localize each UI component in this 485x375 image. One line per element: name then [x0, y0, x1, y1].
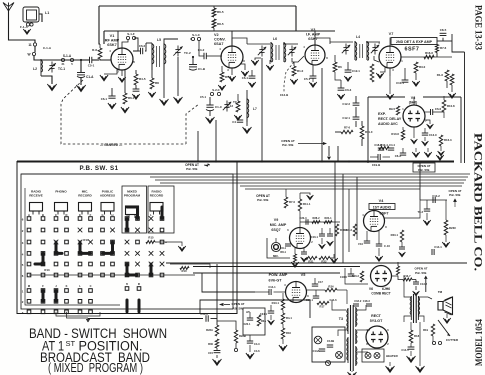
- svg-text:C18-2 C18-3: C18-2 C18-3: [354, 299, 370, 303]
- svg-text:I.F. AMP: I.F. AMP: [306, 33, 321, 37]
- trimmer TC-2: [177, 46, 179, 50]
- capacitor C5-1 series: [81, 59, 89, 61]
- capacitor C14-5: [408, 346, 415, 348]
- transformer T3 primary winding: [347, 308, 349, 334]
- vertical feeder V3 area: [321, 68, 323, 161]
- svg-text:C5-1: C5-1: [200, 95, 207, 99]
- wire bus line 6: [240, 185, 462, 187]
- resistor R16-2 v6: [360, 271, 363, 282]
- wire V7 plate: [389, 38, 391, 47]
- resistor R-7 tall: [370, 64, 374, 82]
- svg-text:C1-C: C1-C: [215, 105, 223, 109]
- switch S-2-C: [210, 92, 213, 95]
- svg-text:C12-1: C12-1: [342, 116, 350, 120]
- svg-text:R13-7: R13-7: [403, 274, 411, 278]
- svg-text:HEATER: HEATER: [386, 354, 399, 358]
- wire L4 top: [330, 41, 353, 43]
- svg-text:C18-2: C18-2: [374, 143, 382, 147]
- svg-text:6JH6: 6JH6: [382, 287, 390, 291]
- heater lamp 2: [374, 353, 380, 359]
- IF transformer L5 secondary: [163, 43, 165, 70]
- svg-text:R11-0: R11-0: [365, 130, 373, 134]
- resistor R16-6 v7 right: [424, 55, 434, 59]
- wire bus line 3: [150, 176, 468, 178]
- capacitor small below: [399, 246, 405, 248]
- svg-text:C20-1: C20-1: [244, 323, 251, 326]
- svg-text:C: C: [90, 284, 92, 288]
- capacitor C6-1 v3: [249, 75, 256, 77]
- tuning capacitor C1-A: [80, 60, 82, 72]
- ground R23C: [445, 235, 447, 242]
- capacitor C13-2 v6: [413, 281, 419, 283]
- switch contacts grid: [27, 217, 31, 221]
- lower contact rows: [27, 289, 31, 293]
- tube V7 2ND DET EXP AMP 6SF7: [379, 46, 401, 68]
- wire matrix right exit: [165, 242, 167, 243]
- svg-text:T6-3: T6-3: [417, 210, 423, 214]
- svg-text:P.B. SW. S1: P.B. SW. S1: [79, 165, 118, 172]
- svg-text:C-16: C-16: [384, 244, 390, 248]
- resistor R4-1 pow: [281, 313, 284, 324]
- dashed gang to C13-B: [284, 62, 294, 92]
- wire junction vertical: [216, 264, 218, 319]
- ground T3 bottom: [351, 371, 353, 372]
- wire bus line 4: [155, 179, 466, 181]
- tube V2 CONV 6SA7: [221, 46, 243, 68]
- svg-text:R6-1: R6-1: [128, 96, 135, 100]
- capacitor C6-2 plate: [138, 50, 140, 52]
- svg-text:R10-2: R10-2: [345, 228, 353, 232]
- svg-text:L7: L7: [253, 107, 257, 111]
- svg-text:C4-6: C4-6: [254, 349, 260, 353]
- resistor R23C: [444, 220, 448, 235]
- svg-text:R16: R16: [286, 331, 291, 335]
- wire loop to terminals: [30, 22, 32, 24]
- switch inner box: [21, 174, 233, 309]
- svg-text:C14-5: C14-5: [401, 348, 409, 352]
- capacitor C6-6: [425, 111, 430, 113]
- svg-text:P.B. SW.: P.B. SW.: [232, 307, 244, 311]
- svg-text:F10: F10: [358, 242, 363, 246]
- capacitor C14-3: [205, 315, 207, 321]
- resistor R16-1: [335, 224, 338, 236]
- resistor R10-6: [401, 130, 404, 140]
- resistor R1-0 below V3: [292, 66, 296, 76]
- ground V1 cathode: [104, 68, 117, 74]
- svg-text:R7-0: R7-0: [289, 200, 296, 204]
- capacitor C6-4: [135, 85, 137, 89]
- svg-text:C5-1: C5-1: [304, 77, 311, 81]
- ground L6: [255, 58, 261, 60]
- capacitor C14-2: [420, 199, 447, 201]
- resistor R7-0 mic: [284, 197, 287, 208]
- wire pow amp grid from bus: [202, 273, 255, 292]
- resistor R21: [306, 256, 317, 259]
- svg-text:T3: T3: [339, 317, 343, 321]
- svg-text:AT: AT: [246, 310, 250, 314]
- heater box: [362, 349, 384, 362]
- svg-text:P.B. SW.: P.B. SW.: [282, 143, 294, 147]
- capacitor C6-1 v1: [108, 95, 115, 97]
- svg-text:R13-1: R13-1: [272, 301, 280, 305]
- screen bus wire: [104, 30, 335, 32]
- switch outer box P.B. SW. S1: [17, 162, 237, 314]
- svg-text:— GANGED —: — GANGED —: [100, 143, 123, 147]
- svg-text:TM: TM: [438, 290, 443, 294]
- tube V6 6H6 comb rect: [371, 266, 392, 287]
- capacitor C8-1 mic: [285, 243, 291, 245]
- capacitor C16-1: [319, 233, 325, 235]
- svg-text:RECORD: RECORD: [78, 194, 92, 198]
- svg-text:C6-3: C6-3: [345, 88, 352, 92]
- wire v6 right arrow up: [425, 279, 427, 292]
- svg-text:R6: R6: [338, 65, 342, 69]
- svg-text:R19: R19: [423, 328, 428, 332]
- top B+ bus wire: [99, 5, 296, 7]
- svg-text:R9-5: R9-5: [389, 107, 396, 111]
- svg-text:P.B. SW.: P.B. SW.: [415, 271, 427, 275]
- svg-text:C14-6: C14-6: [329, 298, 337, 302]
- ground L2: [41, 76, 52, 84]
- lower thick bars: [42, 291, 45, 302]
- svg-text:V1: V1: [110, 34, 115, 38]
- capacitor C13-C: [422, 132, 428, 134]
- svg-text:C14-3: C14-3: [200, 312, 208, 316]
- wire mic plate: [299, 211, 301, 227]
- wire mic out top: [300, 221, 340, 223]
- lower heavy brackets: [126, 300, 129, 312]
- caps on bus C18-2 C4-4: [378, 147, 384, 149]
- resistor R-6 grid: [99, 44, 101, 48]
- IF transformer L4 trimmer left: [345, 44, 347, 48]
- wire to osc section: [151, 70, 153, 74]
- IF transformer L6 secondary coil: [283, 42, 285, 62]
- svg-text:C4-4: C4-4: [389, 143, 395, 147]
- vertical wires to V4: [348, 189, 350, 252]
- switch buttons: [30, 203, 43, 212]
- transformer T3 core: [350, 305, 352, 371]
- svg-text:C16-1: C16-1: [311, 235, 319, 239]
- wire V2 top to screen bus: [231, 31, 233, 46]
- cutter jack: [432, 336, 434, 342]
- svg-text:S-1-A: S-1-A: [63, 54, 72, 58]
- svg-text:R4-1: R4-1: [286, 316, 292, 320]
- vertical feeder L6 area: [261, 58, 263, 161]
- heater lamp 1: [365, 353, 371, 359]
- svg-text:AUDIO AVC: AUDIO AVC: [378, 122, 398, 126]
- tube V5 POW AMP 6V6-GT: [286, 282, 307, 303]
- svg-text:PAGE 13-33: PAGE 13-33: [473, 5, 483, 50]
- svg-text:EXP.: EXP.: [378, 112, 386, 116]
- capacitor C8-5: [437, 40, 452, 42]
- tuning capacitor C1-B: [192, 57, 194, 64]
- arrow to junction: [224, 304, 230, 306]
- svg-text:C6-2: C6-2: [139, 44, 146, 48]
- junction node: [80, 59, 82, 61]
- IF transformer L6 core: [275, 45, 277, 60]
- svg-text:1ST AUDIO: 1ST AUDIO: [373, 205, 392, 209]
- svg-text:OPEN AT: OPEN AT: [414, 267, 427, 271]
- capacitor C-16 below v4: [376, 243, 382, 245]
- svg-text:S-1-C: S-1-C: [192, 33, 201, 37]
- svg-text:R24-1: R24-1: [324, 216, 332, 220]
- svg-text:R23-1: R23-1: [391, 233, 399, 237]
- capacitor C12-3: [353, 102, 360, 104]
- svg-text:C6-A: C6-A: [395, 154, 402, 158]
- ground v8 mid: [413, 127, 415, 138]
- wire V3 top to screen bus: [314, 31, 316, 45]
- oscillator grid cap C1-C: [206, 104, 213, 106]
- wire L5 top link: [146, 42, 152, 44]
- wire v6 out: [392, 276, 403, 280]
- tube V1 RF AMP 6SK7: [111, 48, 133, 70]
- vertical bus drops right: [334, 161, 336, 263]
- svg-text:C6-1: C6-1: [242, 76, 249, 80]
- svg-text:C12-1: C12-1: [352, 69, 360, 73]
- wire v4 out right: [384, 200, 420, 218]
- svg-text:MODEL 1054: MODEL 1054: [475, 319, 485, 366]
- wire bottom exit step: [200, 300, 310, 313]
- capacitor C17 pow: [312, 283, 318, 285]
- ground loop antenna: [23, 29, 30, 34]
- mic cathode components: [294, 248, 296, 254]
- svg-text:F-1-A: F-1-A: [20, 25, 28, 29]
- T2 leads: [404, 276, 412, 297]
- ground in matrix: [166, 242, 182, 246]
- svg-text:R15: R15: [148, 236, 154, 240]
- resistor R11-1 mic: [298, 199, 301, 211]
- svg-text:V5: V5: [301, 273, 306, 277]
- svg-text:V7: V7: [389, 32, 394, 36]
- resistor R6-1 cathode: [123, 93, 127, 104]
- ground R22: [330, 254, 334, 258]
- svg-text:C-1-A: C-1-A: [43, 46, 52, 50]
- tube VR RECT 5Y3-GT: [366, 326, 388, 348]
- junction dots on bus: [215, 160, 217, 162]
- T2 primary: [410, 296, 412, 320]
- svg-text:R6-5: R6-5: [217, 10, 224, 14]
- svg-text:R3A: R3A: [261, 320, 266, 323]
- capacitor C18-1 pow: [313, 295, 319, 297]
- svg-text:PHONO: PHONO: [55, 190, 67, 194]
- svg-text:R17: R17: [320, 305, 325, 309]
- svg-text:C6-6: C6-6: [435, 107, 442, 111]
- svg-text:C5-1: C5-1: [88, 64, 95, 68]
- antenna: [3, 3, 14, 12]
- resistor R7-6 right: [435, 45, 438, 53]
- wire to L2: [34, 56, 41, 60]
- svg-text:L2: L2: [33, 67, 37, 71]
- pilot lamp box: [312, 327, 345, 362]
- resistor R24: [325, 288, 337, 291]
- capacitor C15: [214, 350, 221, 352]
- trimmer TC-4: [226, 101, 228, 105]
- microphone jack: [271, 242, 280, 251]
- mic circuit box: [267, 238, 290, 258]
- svg-text:P.B. SW.: P.B. SW.: [418, 168, 430, 172]
- grounds on bus line: [412, 152, 419, 157]
- svg-text:RECEIVE: RECEIVE: [29, 194, 43, 198]
- svg-text:R23C: R23C: [449, 226, 456, 230]
- svg-text:C1-B: C1-B: [198, 67, 206, 71]
- svg-text:R16-3: R16-3: [444, 138, 452, 142]
- capacitor F10 below v4: [364, 240, 370, 242]
- svg-text:5Y3-GT: 5Y3-GT: [370, 319, 383, 323]
- wire bottom exit: [56, 312, 100, 316]
- svg-text:R-6: R-6: [92, 48, 97, 52]
- svg-text:V6: V6: [369, 287, 373, 291]
- svg-text:6V6-GT: 6V6-GT: [269, 279, 283, 283]
- capacitor C12-1 v3: [345, 69, 352, 71]
- resistor R16-6 v6 right: [397, 266, 400, 275]
- arrow feeder down: [328, 146, 330, 156]
- switch S-1-F: [126, 36, 129, 39]
- svg-text:R1-0: R1-0: [297, 69, 304, 73]
- svg-text:CONV.: CONV.: [214, 38, 226, 42]
- svg-text:TC-1: TC-1: [58, 67, 65, 71]
- svg-text:R8: R8: [155, 81, 159, 85]
- capacitor C16-0: [327, 233, 333, 235]
- resistor R7-6 mid horizontal: [341, 130, 353, 133]
- tube V3 IF AMP 6SK7: [305, 45, 325, 65]
- svg-text:P.B. SW.: P.B. SW.: [186, 167, 198, 171]
- resistor R23-1: [400, 230, 403, 242]
- svg-text:M: M: [28, 284, 30, 288]
- box expander section: [367, 97, 369, 163]
- wire loop right side down: [39, 14, 42, 22]
- mixed program group box: [122, 186, 147, 233]
- svg-text:R13: R13: [44, 268, 50, 272]
- T2 secondary: [417, 296, 419, 320]
- caps on mic out: [305, 219, 307, 225]
- switch S-1-C: [191, 37, 194, 40]
- capacitor C12-1 mid: [353, 116, 360, 118]
- speaker: [438, 302, 443, 311]
- svg-text:R-13: R-13: [227, 104, 234, 108]
- ground L5: [163, 70, 165, 98]
- wire bus line 7: [245, 188, 420, 190]
- loop antenna L1: [23, 7, 39, 22]
- svg-text:C34-1: C34-1: [260, 312, 268, 316]
- svg-text:6SK7: 6SK7: [107, 43, 117, 47]
- ground speaker: [446, 314, 448, 318]
- ground heater: [389, 362, 391, 366]
- svg-text:C14A: C14A: [313, 349, 320, 353]
- ganged tuning dashed line: [61, 80, 186, 144]
- wire bus line 2: [21, 173, 470, 175]
- svg-text:( MIXED PROGRAM ): ( MIXED PROGRAM ): [48, 360, 143, 375]
- svg-text:L6: L6: [273, 37, 277, 41]
- svg-text:PACKARD BELL CO.: PACKARD BELL CO.: [472, 133, 485, 271]
- wire V1 top to screen bus: [117, 31, 119, 48]
- IF transformer L4 secondary: [366, 41, 368, 60]
- svg-text:2ND DET & EXP AMP: 2ND DET & EXP AMP: [396, 40, 433, 44]
- terminal 11: [33, 43, 36, 46]
- resistor R9-5 v8: [396, 106, 399, 115]
- resistor R13-1 pow: [281, 299, 284, 310]
- resistor R10-8 right: [442, 100, 446, 112]
- row 6 common wire: [29, 274, 195, 276]
- resistor R8 osc: [150, 78, 154, 89]
- svg-text:6SQ7: 6SQ7: [271, 228, 280, 232]
- pilot lamp 2: [336, 352, 343, 359]
- resistor R30: [215, 339, 218, 348]
- fuse symbol: [325, 360, 330, 365]
- svg-text:C4-3: C4-3: [254, 342, 260, 346]
- svg-text:R18: R18: [414, 334, 420, 338]
- svg-text:C10-1: C10-1: [396, 81, 404, 85]
- tube V4 1ST AUDIO 6SF7: [364, 211, 385, 232]
- resistor R6-5 dropping: [212, 8, 216, 17]
- label OPEN AT PB SW mid-right boxed: [413, 163, 435, 172]
- svg-text:S-1-F: S-1-F: [127, 32, 135, 36]
- coil L7 oscillator: [246, 98, 248, 122]
- svg-text:21: 21: [61, 62, 65, 66]
- svg-text:RECORD: RECORD: [150, 194, 164, 198]
- ground C1-A: [80, 78, 82, 85]
- svg-text:R16-2: R16-2: [352, 274, 360, 278]
- svg-text:C18-0: C18-0: [340, 275, 348, 279]
- svg-text:R13: R13: [182, 269, 187, 273]
- svg-text:R23A: R23A: [206, 328, 213, 332]
- svg-text:R7-6: R7-6: [344, 126, 351, 130]
- svg-text:11: 11: [28, 43, 32, 47]
- svg-text:R10-8: R10-8: [447, 104, 455, 108]
- switch S-1-A: [61, 58, 64, 61]
- resistor R10-2 v4: [353, 224, 356, 236]
- svg-text:R7-6: R7-6: [440, 46, 447, 50]
- trimmer TC-1: [51, 62, 53, 66]
- label box 1ST AUDIO: [369, 204, 395, 210]
- svg-text:C13-B: C13-B: [280, 93, 288, 97]
- wire v1 plate: [133, 38, 138, 51]
- svg-text:S-2-C: S-2-C: [212, 88, 220, 92]
- resistor R3-0 v7: [414, 62, 418, 73]
- coil L2: [40, 59, 42, 76]
- wires below pickup: [249, 335, 251, 341]
- phono pickup box: [243, 308, 265, 335]
- ground v8 grid: [425, 120, 430, 124]
- svg-text:V9: V9: [274, 218, 278, 222]
- wire L4 to V7: [374, 56, 379, 62]
- svg-text:C8-5: C8-5: [440, 28, 447, 32]
- wire drop to AVC bus: [389, 76, 391, 94]
- svg-text:C13-2: C13-2: [420, 282, 428, 286]
- ground V7 cathode: [380, 67, 385, 72]
- svg-text:P.B. SW.: P.B. SW.: [449, 193, 461, 197]
- svg-text:RECT. DELAY: RECT. DELAY: [378, 117, 402, 121]
- svg-text:L1: L1: [45, 11, 49, 15]
- svg-text:L4: L4: [356, 35, 360, 39]
- ground R16: [282, 339, 284, 344]
- svg-text:R17: R17: [83, 238, 89, 242]
- wire trimmer down: [177, 57, 179, 96]
- resistor R1-6: [445, 70, 449, 81]
- wire lower horizontal to C14-3: [88, 318, 203, 320]
- svg-text:CUTTER: CUTTER: [446, 338, 459, 342]
- svg-text:C6-1: C6-1: [101, 97, 108, 101]
- IF transformer L4 core: [359, 44, 361, 58]
- svg-text:R1-6: R1-6: [437, 73, 444, 77]
- wire V7 right: [401, 56, 452, 58]
- pickup components: [247, 317, 253, 319]
- arrow avc: [298, 143, 324, 145]
- dial lamp: [314, 336, 322, 344]
- ground C15: [216, 355, 218, 358]
- svg-text:C19-B: C19-B: [372, 163, 380, 167]
- svg-text:R10-6: R10-6: [391, 132, 399, 136]
- svg-text:R5-2: R5-2: [225, 75, 232, 79]
